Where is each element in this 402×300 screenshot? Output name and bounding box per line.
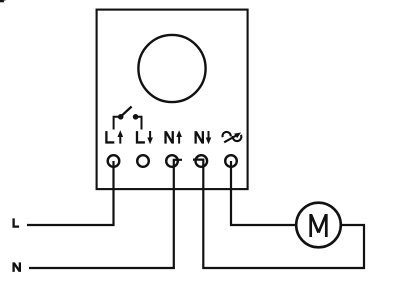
terminal 5 (motor feed) bbox=[225, 155, 237, 167]
motor M1 bbox=[296, 203, 341, 248]
wire: L supply to terminal 1 bbox=[27, 161, 114, 225]
label L-in (terminal 1) bbox=[106, 130, 123, 143]
terminal 4 (N out) bbox=[196, 155, 208, 167]
node N (mains neutral) bbox=[14, 262, 20, 272]
node L (mains live) bbox=[14, 218, 20, 226]
wire: terminal 5 to motor bbox=[231, 161, 296, 225]
label N-out (terminal 4) bbox=[196, 131, 212, 144]
terminal 1 (L in) bbox=[108, 155, 120, 167]
wire: N supply to terminal 3 bbox=[29, 160, 182, 268]
timer dial bbox=[138, 35, 205, 102]
switch contact S1 between L-in and L-out bbox=[114, 107, 142, 130]
wire: terminal 4 to motor (return) bbox=[193, 160, 364, 268]
scan artifact top-left corner bbox=[0, 0, 4, 2]
timer enclosure box bbox=[97, 10, 248, 190]
label N-in (terminal 3) bbox=[166, 130, 182, 143]
terminal 2 (L out) bbox=[137, 155, 149, 167]
label L-out (terminal 2) bbox=[137, 131, 153, 144]
label timer-motor symbol (terminal 5) bbox=[223, 132, 242, 142]
terminal 3 (N in) bbox=[166, 155, 178, 167]
